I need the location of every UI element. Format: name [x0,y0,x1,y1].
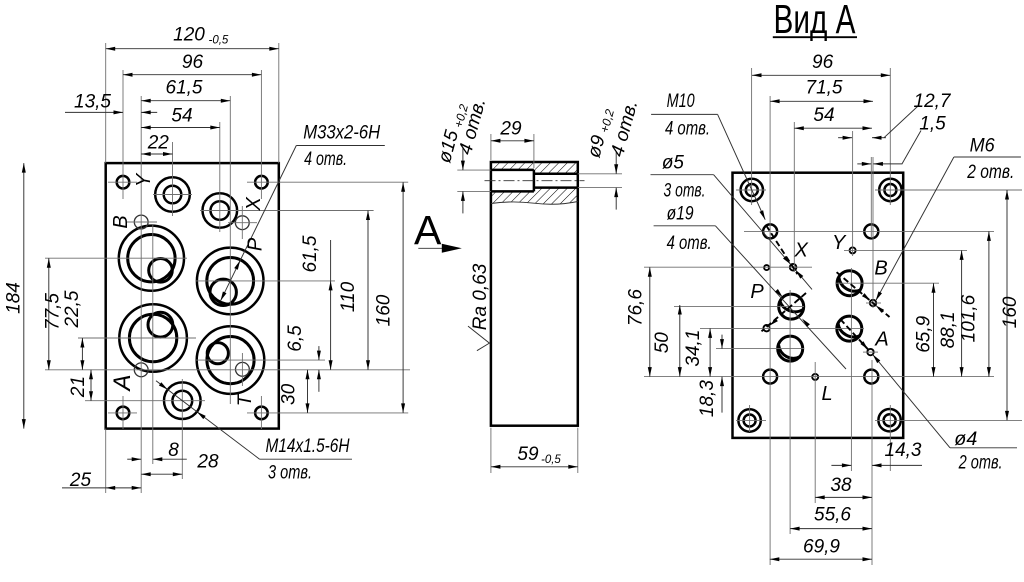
svg-text:25: 25 [69,470,92,491]
svg-text:65,9: 65,9 [914,315,935,352]
svg-text:110: 110 [338,281,359,312]
svg-text:B: B [874,258,887,280]
svg-text:21: 21 [68,376,89,398]
svg-text:34,1: 34,1 [683,330,704,367]
svg-text:A: A [414,207,442,253]
svg-text:ø5: ø5 [662,153,684,174]
svg-text:71,5: 71,5 [806,78,843,99]
svg-text:120: 120 [173,25,205,46]
svg-text:12,7: 12,7 [914,91,952,112]
svg-text:L: L [821,383,832,405]
svg-text:61,5: 61,5 [300,235,321,272]
svg-text:18,3: 18,3 [697,380,718,417]
svg-text:ø19: ø19 [667,204,694,225]
svg-text:69,9: 69,9 [803,537,840,558]
svg-text:4 отв.: 4 отв. [304,149,347,170]
svg-text:8: 8 [168,440,179,461]
svg-text:1,5: 1,5 [919,114,946,135]
svg-text:A: A [109,374,136,392]
svg-text:30: 30 [279,383,300,405]
svg-text:2 отв.: 2 отв. [958,453,1003,474]
svg-text:Вид А: Вид А [774,0,856,42]
svg-text:2 отв.: 2 отв. [966,162,1014,183]
svg-text:ø4: ø4 [954,429,977,450]
svg-text:50: 50 [652,332,673,354]
svg-text:M10: M10 [667,91,695,112]
svg-text:Y: Y [133,172,155,187]
svg-text:101,6: 101,6 [959,294,980,342]
svg-text:B: B [110,215,132,228]
svg-text:54: 54 [813,105,834,126]
svg-text:Ra 0,63: Ra 0,63 [470,263,491,330]
svg-text:A: A [874,329,888,351]
svg-text:M6: M6 [970,135,995,156]
svg-text:38: 38 [830,475,852,496]
svg-text:29: 29 [499,119,522,140]
svg-text:22,5: 22,5 [62,290,83,328]
svg-text:59: 59 [517,444,539,465]
svg-text:Y: Y [832,232,847,254]
svg-text:P: P [245,237,267,251]
svg-text:M33x2-6H: M33x2-6H [303,123,380,144]
svg-text:77,5: 77,5 [43,293,64,330]
svg-text:54: 54 [171,106,192,127]
svg-text:4 отв.: 4 отв. [667,233,712,254]
svg-text:76,6: 76,6 [626,289,647,326]
svg-text:3 отв.: 3 отв. [664,180,706,201]
svg-text:61,5: 61,5 [166,78,203,99]
svg-text:6,5: 6,5 [285,325,306,352]
svg-text:-0,5: -0,5 [209,35,229,47]
svg-text:P: P [750,281,764,303]
svg-text:96: 96 [182,52,204,73]
svg-text:X: X [243,197,265,212]
svg-text:-0,5: -0,5 [541,454,561,466]
svg-text:22: 22 [147,133,170,154]
svg-text:14,3: 14,3 [885,440,922,461]
svg-text:160: 160 [1000,296,1021,328]
svg-text:184: 184 [4,282,25,314]
svg-text:88,1: 88,1 [938,311,959,348]
svg-text:160: 160 [374,294,395,326]
svg-text:3 отв.: 3 отв. [268,463,312,484]
svg-text:T: T [235,393,256,406]
svg-text:28: 28 [196,452,219,473]
svg-text:96: 96 [812,52,834,73]
svg-text:4 отв.: 4 отв. [665,119,710,140]
svg-text:55,6: 55,6 [814,505,851,526]
svg-text:13,5: 13,5 [74,92,111,113]
svg-text:M14x1.5-6H: M14x1.5-6H [266,436,350,457]
svg-text:X: X [794,240,809,262]
